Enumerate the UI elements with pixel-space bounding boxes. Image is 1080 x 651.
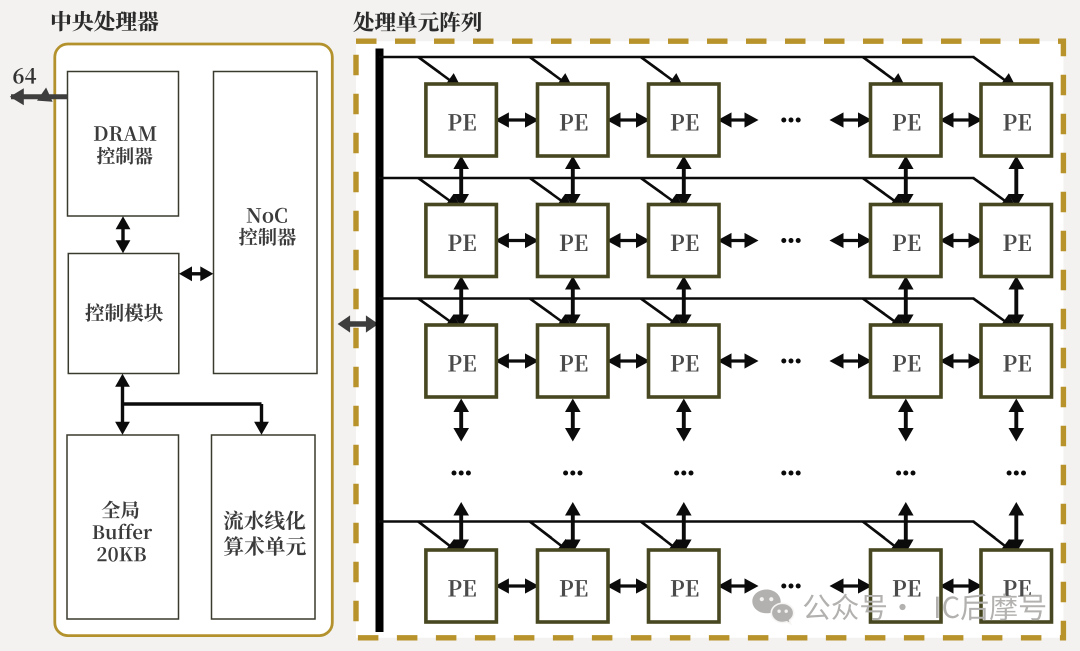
arrow ellipsis <-> PE r3c4 [830,353,873,368]
label 20KB [97,547,145,562]
arrow PE r1c4 <-> PE r1c5 [940,112,983,127]
arrow bus3 feed into PE r3c5 [973,299,1017,330]
ellipsis column 2 (hidden rows) [563,471,582,476]
PE block r2c4 [871,205,942,277]
arrow PE r1c1 <-> PE r2c1 [453,156,469,208]
label DRAM [94,126,157,141]
PE block r1c4 [871,84,942,156]
PE block r2c2 [538,205,609,277]
arrow bus4 feed into PE r4c1 [418,522,462,555]
PE label r1c3 [671,114,699,130]
arrow ellipsis toward PE r4c2 [565,502,581,553]
vertical bus bar (array input spine) [376,49,384,633]
arrow DRAM controller <-> control module [116,216,131,253]
label 控制器 (NoC) [239,228,296,246]
arrow ellipsis <-> PE r1c4 [830,112,873,127]
arrow PE r3c2 <-> PE r3c3 [607,353,651,368]
arrow bus4 feed into PE r4c5 [973,522,1017,555]
arrow PE r4c2 <-> PE r4c3 [607,578,651,593]
block NoC controller (NoC 控制器) [214,72,318,374]
ellipsis center (hidden rows+columns) [781,471,800,476]
ellipsis row 1 (hidden columns) [781,118,800,123]
arrow bus1 feed into PE r1c5 [973,57,1017,89]
arrow ellipsis <-> PE r4c4 [830,578,873,593]
block DRAM controller (DRAM 控制器) [68,72,179,217]
arrow PE r2c1 <-> PE r2c2 [495,233,539,248]
arrow PE r1c3 <-> ellipsis [718,112,759,127]
arrow bus2 feed into PE r2c1 [418,178,462,209]
PE label r1c2 [560,114,588,130]
PE label r3c1 [448,355,476,371]
block pipelined arithmetic unit (流水线化算术单元) [212,435,316,619]
arrow bus1 feed into PE r1c4 [863,57,907,89]
arrow PE r2c2 <-> PE r3c2 [565,276,581,328]
PE label r1c5 [1003,114,1031,130]
arrow bus2 feed into PE r2c2 [530,178,574,209]
arrow ellipsis <-> PE r2c4 [830,233,873,248]
PE block r4c5 [981,550,1052,622]
arrow PE r2c3 <-> ellipsis [718,233,759,248]
label 控制模块 [85,303,163,321]
arrow bus3 feed into PE r3c2 [530,299,574,330]
arrow PE r4c1 <-> PE r4c2 [495,578,539,593]
PE label r4c1 [448,580,476,596]
PE block r1c1 [426,84,497,156]
arrow PE r3c2 toward ellipsis [565,399,581,442]
title 中央处理器 (central processor) [52,11,159,32]
watermark WeChat icon (two chat bubbles) [752,589,793,623]
PE label r3c2 [560,355,588,371]
arrow bus4 feed into PE r4c2 [530,522,574,555]
arrow bus3 feed into PE r3c1 [418,299,462,330]
arrow PE r3c3 <-> ellipsis [718,353,759,368]
title 处理单元阵列 (processing element array) [353,12,481,33]
PE block r2c3 [649,205,720,277]
PE label r2c4 [893,235,921,251]
PE label r3c3 [671,355,699,371]
watermark text IC后摩号 [936,593,1045,620]
arrow PE r2c4 <-> PE r2c5 [940,233,983,248]
label 全局 [102,501,139,519]
block control module (控制模块) [68,254,179,374]
ellipsis row 2 (hidden columns) [781,238,800,243]
arrow bus1 feed into PE r1c1 [418,57,462,89]
arrow bus1 feed into PE r1c3 [641,57,685,89]
PE block r3c4 [871,325,942,397]
PE block r4c1 [426,550,497,622]
ellipsis column 5 (hidden rows) [1007,471,1026,476]
PE block r3c5 [981,325,1052,397]
external 64-bit DRAM bus arrow [10,88,68,106]
PE label r4c5 [1003,580,1031,596]
label 算术单元 [224,536,306,556]
arrow PE r1c5 <-> PE r2c5 [1009,156,1025,208]
PE block r3c3 [649,325,720,397]
arrow PE r2c4 <-> PE r3c4 [898,276,914,328]
arrow ellipsis toward PE r4c1 [453,502,469,553]
ellipsis row 4 (hidden columns) [781,584,800,589]
label NoC [247,208,287,223]
arrow PE r3c5 toward ellipsis [1009,399,1025,442]
wire row-bus 3 [379,297,974,300]
PE label r4c4 [893,580,921,596]
ellipsis column 3 (hidden rows) [674,471,693,476]
block global buffer (全局 Buffer 20KB) [67,435,179,619]
arrow PE r3c4 toward ellipsis [898,399,914,442]
arrow ellipsis toward PE r4c4 [898,502,914,553]
watermark text 公众号 [804,594,886,620]
arrow PE r2c5 <-> PE r3c5 [1009,276,1025,328]
arrow bus4 feed into PE r4c3 [641,522,685,555]
watermark separator dot [899,604,905,610]
arrow PE r2c1 <-> PE r3c1 [453,276,469,328]
arrow PE r1c2 <-> PE r2c2 [565,156,581,208]
arrow bus2 feed into PE r2c3 [641,178,685,209]
ellipsis column 1 (hidden rows) [452,471,471,476]
PE label r2c3 [671,235,699,251]
arrow ellipsis toward PE r4c3 [676,502,692,553]
arrow ellipsis toward PE r4c5 [1009,502,1025,553]
PE block r2c5 [981,205,1052,277]
PE label r2c5 [1003,235,1031,251]
PE block r4c4 [871,550,942,622]
arrow PE r2c3 <-> PE r3c3 [676,276,692,328]
arrow PE r1c2 <-> PE r1c3 [607,112,651,127]
arrow bus3 feed into PE r3c4 [863,299,907,330]
PE label r2c1 [448,235,476,251]
label Buffer [93,524,152,540]
PE array dashed gold frame 处理单元阵列 [356,41,1063,638]
PE block r4c3 [649,550,720,622]
PE label r3c5 [1003,355,1031,371]
arrow bus1 feed into PE r1c2 [530,57,574,89]
CPU panel outer rounded gold frame 中央处理器 [55,44,333,636]
PE label r3c4 [893,355,921,371]
arrow PE r3c1 toward ellipsis [453,399,469,442]
arrow PE r3c4 <-> PE r3c5 [940,353,983,368]
arrow PE r3c1 <-> PE r3c2 [495,353,539,368]
PE label r4c3 [671,580,699,596]
wire row-bus 1 [379,56,974,59]
arrow control module <-> NoC controller [179,266,213,281]
PE block r3c2 [538,325,609,397]
PE label r1c4 [893,114,921,130]
ellipsis row 3 (hidden columns) [781,359,800,364]
arrow PE r4c3 <-> ellipsis [718,578,759,593]
label 控制器 (DRAM) [97,147,153,165]
PE block r1c3 [649,84,720,156]
PE block r4c2 [538,550,609,622]
arrow control module <-> global buffer and -> arithmetic unit (branched) [115,374,269,435]
arrow PE r1c3 <-> PE r2c3 [676,156,692,208]
label 流水线化 [224,510,306,530]
PE block r3c1 [426,325,497,397]
arrow bus3 feed into PE r3c3 [641,299,685,330]
CPU to PE-array interconnect arrow [338,315,379,332]
arrow bus4 feed into PE r4c4 [863,522,907,555]
arrow PE r1c1 <-> PE r1c2 [495,112,539,127]
PE block r2c1 [426,205,497,277]
arrow bus2 feed into PE r2c4 [863,178,907,209]
wire row-bus 2 [379,177,974,180]
arrow PE r2c2 <-> PE r2c3 [607,233,651,248]
PE label r4c2 [560,580,588,596]
PE block r1c5 [981,84,1052,156]
arrow bus2 feed into PE r2c5 [973,178,1017,209]
arrow PE r1c4 <-> PE r2c4 [898,156,914,208]
PE label r2c2 [560,235,588,251]
wire row-bus 4 [379,520,974,523]
arrow PE r4c4 <-> PE r4c5 [940,578,983,593]
arrow PE r3c3 toward ellipsis [676,399,692,442]
label 64 (bus width) [13,68,36,84]
ellipsis column 4 (hidden rows) [896,471,915,476]
PE block r1c2 [538,84,609,156]
PE label r1c1 [448,114,476,130]
